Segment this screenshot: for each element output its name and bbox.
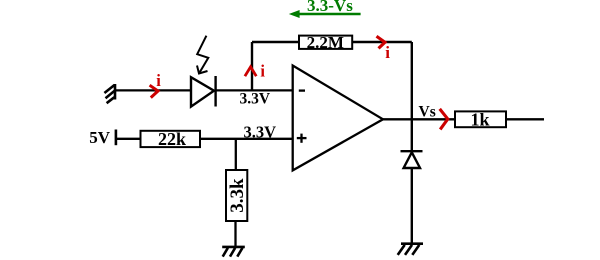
light arrow (photodiode illumination) (197, 36, 208, 74)
wire feedback to 2.2M (252, 41, 299, 43)
wire feedback drop to output (411, 42, 413, 119)
svg-text:1k: 1k (470, 110, 489, 130)
wire feedback riser (251, 42, 253, 90)
svg-text:3.3k: 3.3k (227, 178, 248, 213)
current arrow (output) (440, 109, 448, 129)
current arrow i (through 2.2M) (377, 36, 386, 48)
wire clamp riser (411, 119, 413, 152)
terminal 5V (115, 130, 118, 146)
svg-text:22k: 22k (158, 129, 186, 149)
wire input ground to photodiode (115, 89, 191, 91)
photodiode D1 (191, 76, 216, 107)
svg-text:5V: 5V (89, 128, 111, 147)
wire 1k to right (506, 118, 544, 120)
resistor 3.3k (226, 170, 248, 221)
svg-text:i: i (260, 62, 265, 81)
resistor 22k (141, 129, 201, 149)
wire 3.3k to ground (234, 221, 236, 247)
svg-text:3.3V: 3.3V (244, 122, 277, 141)
wire photodiode to inverting input (216, 89, 293, 91)
wire clamp diode to ground (411, 168, 413, 244)
op-amp U1 (293, 66, 383, 171)
svg-text:2.2M: 2.2M (307, 33, 344, 52)
ground (clamp) (398, 244, 423, 255)
ground (divider) (222, 247, 245, 257)
wire 22k to noninverting input (200, 138, 293, 140)
wire 2.2M to output node (352, 41, 412, 43)
diode D2 (clamp to ground) (401, 151, 423, 168)
current arrow i (into feedback) (245, 67, 256, 76)
green arrow (voltage 3.3-Vs direction) (289, 10, 361, 18)
svg-text:i: i (156, 71, 161, 90)
svg-text:Vs: Vs (419, 104, 436, 121)
resistor 2.2M (299, 33, 352, 52)
ground (input, rotated) (104, 84, 115, 103)
svg-text:3.3V: 3.3V (240, 91, 271, 108)
svg-text:3.3-Vs: 3.3-Vs (307, 0, 353, 15)
wire output (383, 118, 455, 120)
wire divider riser (235, 139, 237, 171)
wire 5V to 22k (116, 138, 141, 140)
current arrow i (input wire) (150, 85, 158, 97)
resistor 1k (455, 110, 506, 130)
svg-text:i: i (385, 43, 390, 62)
